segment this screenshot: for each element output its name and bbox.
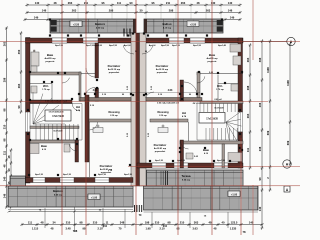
svg-text:48: 48 xyxy=(209,221,212,225)
top dimension row 3 right segment xyxy=(223,16,241,21)
stair right unit xyxy=(197,104,243,142)
svg-text:Ap=1,50: Ap=1,50 xyxy=(55,44,64,47)
svg-text:210: 210 xyxy=(103,225,108,228)
svg-text:2.10 mp: 2.10 mp xyxy=(159,115,167,117)
stoop left hatched xyxy=(10,176,26,206)
balcony top-right hatched xyxy=(144,19,223,33)
svg-text:1.70 mp: 1.70 mp xyxy=(42,89,50,91)
svg-text:4.63: 4.63 xyxy=(168,89,173,92)
wall interior vertical x75 lower xyxy=(75,140,79,162)
fixture wc right xyxy=(231,84,238,91)
svg-text:111: 111 xyxy=(117,1,122,5)
wall interior vertical x95 upper xyxy=(95,43,99,78)
svg-text:30: 30 xyxy=(140,9,143,13)
door arc baie2 left xyxy=(69,144,77,151)
label Baie left-bottom xyxy=(41,144,47,151)
svg-text:98: 98 xyxy=(3,108,7,111)
svg-text:Ap=1,30: Ap=1,30 xyxy=(124,173,133,176)
red axis line vertical x86 xyxy=(85,0,87,235)
svg-text:98: 98 xyxy=(3,138,7,141)
balcony bottom-left lower border xyxy=(8,209,133,211)
bottom dimension row main xyxy=(20,221,263,226)
svg-text:350: 350 xyxy=(17,49,21,54)
svg-text:4.10 mp: 4.10 mp xyxy=(163,27,172,30)
door arc dormitor2 left xyxy=(90,122,98,130)
svg-text:398: 398 xyxy=(258,57,262,62)
svg-text:Baie: Baie xyxy=(41,144,47,148)
door arc dormitor2 right xyxy=(146,92,155,98)
svg-text:1.98: 1.98 xyxy=(145,227,151,231)
svg-text:Hol: Hol xyxy=(182,111,186,115)
svg-text:Ap=1,50: Ap=1,50 xyxy=(109,44,118,47)
svg-text:48: 48 xyxy=(197,1,200,5)
svg-text:149: 149 xyxy=(230,16,235,20)
door arc entry right xyxy=(142,45,153,54)
wall interior vertical x34 xyxy=(34,50,36,72)
entry Ap labels xyxy=(124,44,157,47)
balcony top-left hatched xyxy=(50,19,136,33)
svg-text:5.33 mp: 5.33 mp xyxy=(54,195,63,197)
svg-text:263: 263 xyxy=(206,9,211,13)
wall wc left xyxy=(30,84,52,101)
svg-text:210: 210 xyxy=(180,221,185,225)
level tag (+1.00) bottom-left xyxy=(88,194,100,200)
svg-text:406: 406 xyxy=(258,102,262,107)
label Dormitor left-bottom xyxy=(100,164,113,174)
svg-text:p=parchet: p=parchet xyxy=(109,71,120,74)
section line A-A top xyxy=(243,37,295,45)
svg-text:98: 98 xyxy=(168,221,171,225)
svg-text:149: 149 xyxy=(34,16,39,20)
fixture toilet baie2 left xyxy=(64,144,70,152)
svg-text:146: 146 xyxy=(3,193,7,198)
wall baie top horizontal right xyxy=(180,141,243,144)
svg-text:Dressing: Dressing xyxy=(108,110,120,114)
top dimension row 2 xyxy=(25,9,241,14)
wall right outer upper xyxy=(238,38,243,112)
door arc baie2 right xyxy=(181,141,189,149)
svg-text:p=gresie: p=gresie xyxy=(45,61,55,63)
svg-text:1.115: 1.115 xyxy=(32,227,39,231)
svg-text:98: 98 xyxy=(80,221,83,225)
svg-text:Ap=1,4: Ap=1,4 xyxy=(124,44,132,47)
left dimension column 2 xyxy=(7,148,13,208)
top dimension row 1 xyxy=(25,1,241,6)
svg-text:263: 263 xyxy=(17,83,21,88)
svg-text:609: 609 xyxy=(286,140,290,145)
svg-text:+1.00: +1.00 xyxy=(231,194,238,197)
fixture shower baie2 left xyxy=(30,144,39,154)
window bottom right B1 xyxy=(152,163,166,168)
svg-text:96: 96 xyxy=(102,1,105,5)
left dimension column 3 xyxy=(17,31,23,113)
svg-text:Balcon: Balcon xyxy=(95,22,105,26)
wall interior vertical x180 upper xyxy=(180,80,184,101)
svg-text:p=gresie: p=gresie xyxy=(207,61,217,63)
fixture wc left xyxy=(31,86,37,93)
svg-text:210: 210 xyxy=(155,221,160,225)
wall stair top horizontal right xyxy=(200,101,243,104)
svg-text:Ap=1,40: Ap=1,40 xyxy=(218,44,227,47)
svg-text:+2.55: +2.55 xyxy=(190,24,197,27)
svg-text:JS 1.10: JS 1.10 xyxy=(193,103,201,105)
wall party right leaf xyxy=(140,33,147,186)
window bottom left B5 xyxy=(60,178,74,183)
svg-text:Balcon: Balcon xyxy=(162,22,172,26)
wall stair bottom horizontal left xyxy=(30,126,79,129)
wall interior vertical x197 xyxy=(197,72,200,101)
detail square marker xyxy=(284,186,290,192)
label Dressing right xyxy=(157,110,169,117)
svg-text:9.15 mp: 9.15 mp xyxy=(182,180,191,182)
svg-text:17x17,6/28: 17x17,6/28 xyxy=(206,119,218,121)
svg-text:A=12.19 mp: A=12.19 mp xyxy=(156,68,169,71)
svg-text:p=parchet: p=parchet xyxy=(157,71,168,74)
svg-text:298: 298 xyxy=(3,77,7,82)
svg-text:4.10 mp: 4.10 mp xyxy=(96,27,105,30)
svg-text:298: 298 xyxy=(246,85,250,90)
svg-text:198: 198 xyxy=(145,221,150,225)
svg-text:210: 210 xyxy=(66,221,71,225)
wall mid horizontal left b xyxy=(80,98,131,102)
svg-text:263: 263 xyxy=(246,57,250,62)
bottom dimension row labels below xyxy=(73,214,246,234)
svg-text:263: 263 xyxy=(72,9,77,13)
bottom number row 2 xyxy=(32,227,237,231)
svg-text:96: 96 xyxy=(152,1,155,5)
label Terasa bottom-right xyxy=(182,174,191,182)
label Balcon bottom-left xyxy=(53,189,63,197)
window top W1 xyxy=(52,38,67,43)
wall interior vertical x79 xyxy=(79,72,81,101)
bottom extension lines xyxy=(45,207,228,232)
svg-text:609: 609 xyxy=(266,130,270,135)
wall party left leaf xyxy=(131,33,136,186)
door arc dormitor left xyxy=(85,88,95,98)
svg-text:263: 263 xyxy=(246,113,250,118)
svg-text:238: 238 xyxy=(258,146,262,151)
svg-text:90: 90 xyxy=(7,168,11,171)
fixture sink baie2 right xyxy=(186,153,193,159)
svg-text:Terasa: Terasa xyxy=(182,174,191,178)
window bottom right B3 xyxy=(214,163,228,168)
label Dressing left xyxy=(108,110,120,117)
right dimension column 1 xyxy=(246,43,252,169)
svg-text:Ap=1,30: Ap=1,30 xyxy=(177,159,186,162)
svg-text:17x17,6/28: 17x17,6/28 xyxy=(52,116,64,118)
svg-text:+2.55: +2.55 xyxy=(73,24,80,27)
label apartment texts bottom left xyxy=(35,173,133,176)
red axis line vertical x178 xyxy=(177,0,179,235)
svg-text:111: 111 xyxy=(28,221,33,225)
svg-text:263: 263 xyxy=(3,41,7,46)
window bottom left B6 xyxy=(95,178,109,183)
label Dormitor right-bottom xyxy=(154,143,167,153)
svg-text:Ap=1,30: Ap=1,30 xyxy=(155,159,164,162)
window top W2 xyxy=(83,38,98,43)
svg-text:111: 111 xyxy=(246,147,250,152)
svg-text:263: 263 xyxy=(181,1,186,5)
svg-text:Baie: Baie xyxy=(203,148,209,152)
red axis line vertical x62 xyxy=(61,0,63,235)
section marker A right lower xyxy=(283,160,291,168)
svg-text:210: 210 xyxy=(93,221,98,225)
door post squares xyxy=(27,18,243,176)
wall dressing bottom right xyxy=(150,119,188,122)
window bottom left B4 xyxy=(33,178,45,183)
svg-text:W.C.: W.C. xyxy=(43,84,49,88)
svg-text:W.C.: W.C. xyxy=(217,84,223,88)
svg-text:3.48: 3.48 xyxy=(65,227,71,231)
door arc baie right xyxy=(197,76,205,83)
svg-text:Ap=1,30: Ap=1,30 xyxy=(35,173,44,176)
window top W4 xyxy=(190,38,205,43)
svg-text:90: 90 xyxy=(258,177,262,180)
door arc baie left xyxy=(86,68,95,77)
svg-text:348: 348 xyxy=(120,221,125,225)
top dim extension lines xyxy=(48,6,221,20)
label Dormitor left-top xyxy=(108,64,121,74)
svg-text:Dormitor: Dormitor xyxy=(156,64,169,68)
wall interior vertical x95 lower xyxy=(95,88,99,101)
wall line dormitor east right xyxy=(188,122,190,141)
label Hol right xyxy=(182,111,187,118)
svg-text:2.10 mp: 2.10 mp xyxy=(110,115,118,117)
door arc hol left xyxy=(72,103,80,111)
balcony top-left steps xyxy=(51,19,137,33)
svg-text:40: 40 xyxy=(222,221,225,225)
wall top outer xyxy=(26,38,244,43)
label WC left xyxy=(42,84,50,91)
wall interior vertical x222 xyxy=(222,144,225,168)
red axis line vertical x212 xyxy=(211,0,213,235)
wall bottom right unit xyxy=(137,163,243,168)
wall interior baie-top horizontal left xyxy=(30,72,97,75)
svg-text:Ap=1,50: Ap=1,50 xyxy=(94,44,103,47)
dim text 4.63 right xyxy=(146,89,200,93)
svg-text:+1.00: +1.00 xyxy=(91,197,98,200)
svg-text:146: 146 xyxy=(228,9,233,13)
svg-text:48: 48 xyxy=(41,221,44,225)
svg-text:146: 146 xyxy=(42,9,47,13)
level tag dormitor left xyxy=(93,125,103,133)
svg-text:90: 90 xyxy=(17,105,21,108)
red axis line vertical x136 xyxy=(135,0,137,235)
dim text 4.63 left xyxy=(84,89,146,93)
svg-text:Dormitor: Dormitor xyxy=(108,64,121,68)
dim text row stairs left xyxy=(45,100,68,114)
svg-text:Ap=1,30: Ap=1,30 xyxy=(63,173,72,176)
svg-text:140: 140 xyxy=(258,206,262,211)
wall mid horizontal left a xyxy=(30,100,72,104)
wall right outer lower xyxy=(238,132,243,168)
svg-text:210: 210 xyxy=(3,124,7,129)
svg-text:140: 140 xyxy=(211,1,216,5)
svg-text:8x17,6/28: 8x17,6/28 xyxy=(215,108,225,110)
steps bottom center xyxy=(135,205,142,212)
right dimension column 4 xyxy=(286,42,292,165)
svg-text:Ap=1,50: Ap=1,50 xyxy=(161,44,170,47)
fixture baie right-top xyxy=(230,44,241,65)
label Hol left xyxy=(76,105,81,112)
wall interior baie-top horizontal right xyxy=(197,72,243,75)
svg-text:140: 140 xyxy=(35,1,40,5)
wall left outer upper xyxy=(26,38,31,113)
svg-text:2.03 m2: 2.03 m2 xyxy=(214,99,222,101)
window right wall xyxy=(238,112,243,132)
window top W3 xyxy=(169,38,184,43)
red axis line horizontal y41 xyxy=(0,41,300,43)
svg-text:Hol: Hol xyxy=(76,105,80,109)
svg-text:90: 90 xyxy=(130,1,133,5)
svg-text:2.03 m2(+1v2)=4.06 m2: 2.03 m2(+1v2)=4.06 m2 xyxy=(157,102,180,105)
svg-text:34: 34 xyxy=(53,221,56,225)
label Balcon top-left xyxy=(95,22,105,30)
level tag (+2.55) right xyxy=(187,21,199,27)
svg-text:A=13.81 mp: A=13.81 mp xyxy=(154,147,167,150)
fixture baie left-top xyxy=(31,52,39,72)
red axis line horizontal y167 xyxy=(128,166,300,168)
sub dim line below left balcony xyxy=(8,209,135,213)
door arc hol right xyxy=(184,82,197,95)
right dimension column 3 xyxy=(266,39,272,191)
red axis line horizontal y186 xyxy=(0,185,300,187)
left dimension column 1 xyxy=(3,26,9,208)
terrace bottom-right upper hatched xyxy=(147,170,244,186)
svg-text:111: 111 xyxy=(3,150,7,155)
terrace bottom-right lower hatched xyxy=(144,186,259,210)
svg-text:Ap=1,50: Ap=1,50 xyxy=(172,44,181,47)
svg-text:3.63: 3.63 xyxy=(192,227,198,231)
wall wc right xyxy=(218,75,238,101)
dim texts misc xyxy=(54,51,225,172)
wall bottom left unit xyxy=(26,178,134,183)
entry steps center top xyxy=(124,29,130,37)
red axis line vertical x253 xyxy=(252,0,254,235)
svg-text:48: 48 xyxy=(3,164,7,167)
wall party core xyxy=(136,33,140,186)
terrace lower border line xyxy=(144,212,259,218)
label Dormitor right-top xyxy=(156,64,169,74)
wall mid horizontal right xyxy=(146,98,202,102)
door arc wc left xyxy=(62,78,70,83)
svg-text:263: 263 xyxy=(68,1,73,5)
label WC right xyxy=(216,84,224,91)
balcony top-right steps xyxy=(144,19,223,33)
svg-text:123.5: 123.5 xyxy=(231,221,238,225)
label Baie right-bottom xyxy=(203,148,209,155)
svg-text:363: 363 xyxy=(194,221,199,225)
right dimension column 2 xyxy=(258,39,264,229)
svg-text:Ap=1,30: Ap=1,30 xyxy=(98,173,107,176)
wall baie2 top horizontal left xyxy=(30,140,77,143)
wall left outer lower xyxy=(26,132,31,183)
svg-text:1196: 1196 xyxy=(286,80,290,86)
label apartment texts bottom right xyxy=(155,159,226,162)
svg-text:48: 48 xyxy=(7,155,11,158)
svg-text:Ap=1,30: Ap=1,30 xyxy=(217,159,226,162)
door arc entry left xyxy=(123,45,134,54)
window left wall xyxy=(26,112,31,132)
top dimension row 3 left segment xyxy=(23,16,49,21)
svg-text:Dormitor: Dormitor xyxy=(100,164,113,168)
window bottom right B2 xyxy=(174,163,188,168)
svg-text:788: 788 xyxy=(73,229,78,233)
svg-text:140: 140 xyxy=(228,1,233,5)
svg-text:A=4.55 mp: A=4.55 mp xyxy=(44,57,56,60)
label Balcon top-right xyxy=(162,22,172,30)
dim text row stairs right xyxy=(157,99,222,105)
label apartment texts top xyxy=(55,44,227,47)
level tag dormitor right xyxy=(158,125,168,133)
svg-text:Balcon: Balcon xyxy=(53,189,63,193)
svg-text:210: 210 xyxy=(163,225,168,228)
svg-text:1196: 1196 xyxy=(266,67,270,73)
svg-text:298: 298 xyxy=(169,9,174,13)
svg-text:298: 298 xyxy=(109,9,114,13)
wall interior vertical x85 xyxy=(85,95,89,162)
svg-text:Ap=1,50: Ap=1,50 xyxy=(193,44,202,47)
wall interior vertical x180 lower xyxy=(180,140,184,168)
svg-text:1.70 mp: 1.70 mp xyxy=(216,89,224,91)
svg-text:211: 211 xyxy=(166,1,171,5)
balcony bottom-left hatched xyxy=(8,186,133,207)
svg-text:Dormitor: Dormitor xyxy=(154,143,167,147)
wall dressing bottom left xyxy=(89,119,131,122)
svg-text:Dressing: Dressing xyxy=(157,110,169,114)
terrace steps left end xyxy=(161,171,168,185)
svg-text:1.235: 1.235 xyxy=(230,227,237,231)
fixture shower baie2 right xyxy=(228,153,242,162)
red axis line vertical x241 xyxy=(240,138,242,235)
svg-text:140: 140 xyxy=(3,176,7,181)
svg-text:48: 48 xyxy=(54,1,57,5)
svg-text:A=12.19 mp: A=12.19 mp xyxy=(108,68,121,71)
svg-text:A=4.55 mp: A=4.55 mp xyxy=(206,57,218,60)
svg-text:p=parchet: p=parchet xyxy=(155,150,166,153)
stair left unit xyxy=(30,92,82,140)
svg-text:Baie: Baie xyxy=(47,53,54,57)
svg-text:4.63: 4.63 xyxy=(93,89,98,92)
wall line dormitor west left xyxy=(89,122,91,177)
level tag (+2.55) left xyxy=(70,21,82,27)
level tag (+1.00) bottom-right xyxy=(228,191,240,197)
red axis line horizontal y101 xyxy=(0,101,268,103)
label Baie left-top xyxy=(44,53,56,63)
svg-text:78: 78 xyxy=(243,230,246,234)
label Baie right-top xyxy=(206,53,218,63)
